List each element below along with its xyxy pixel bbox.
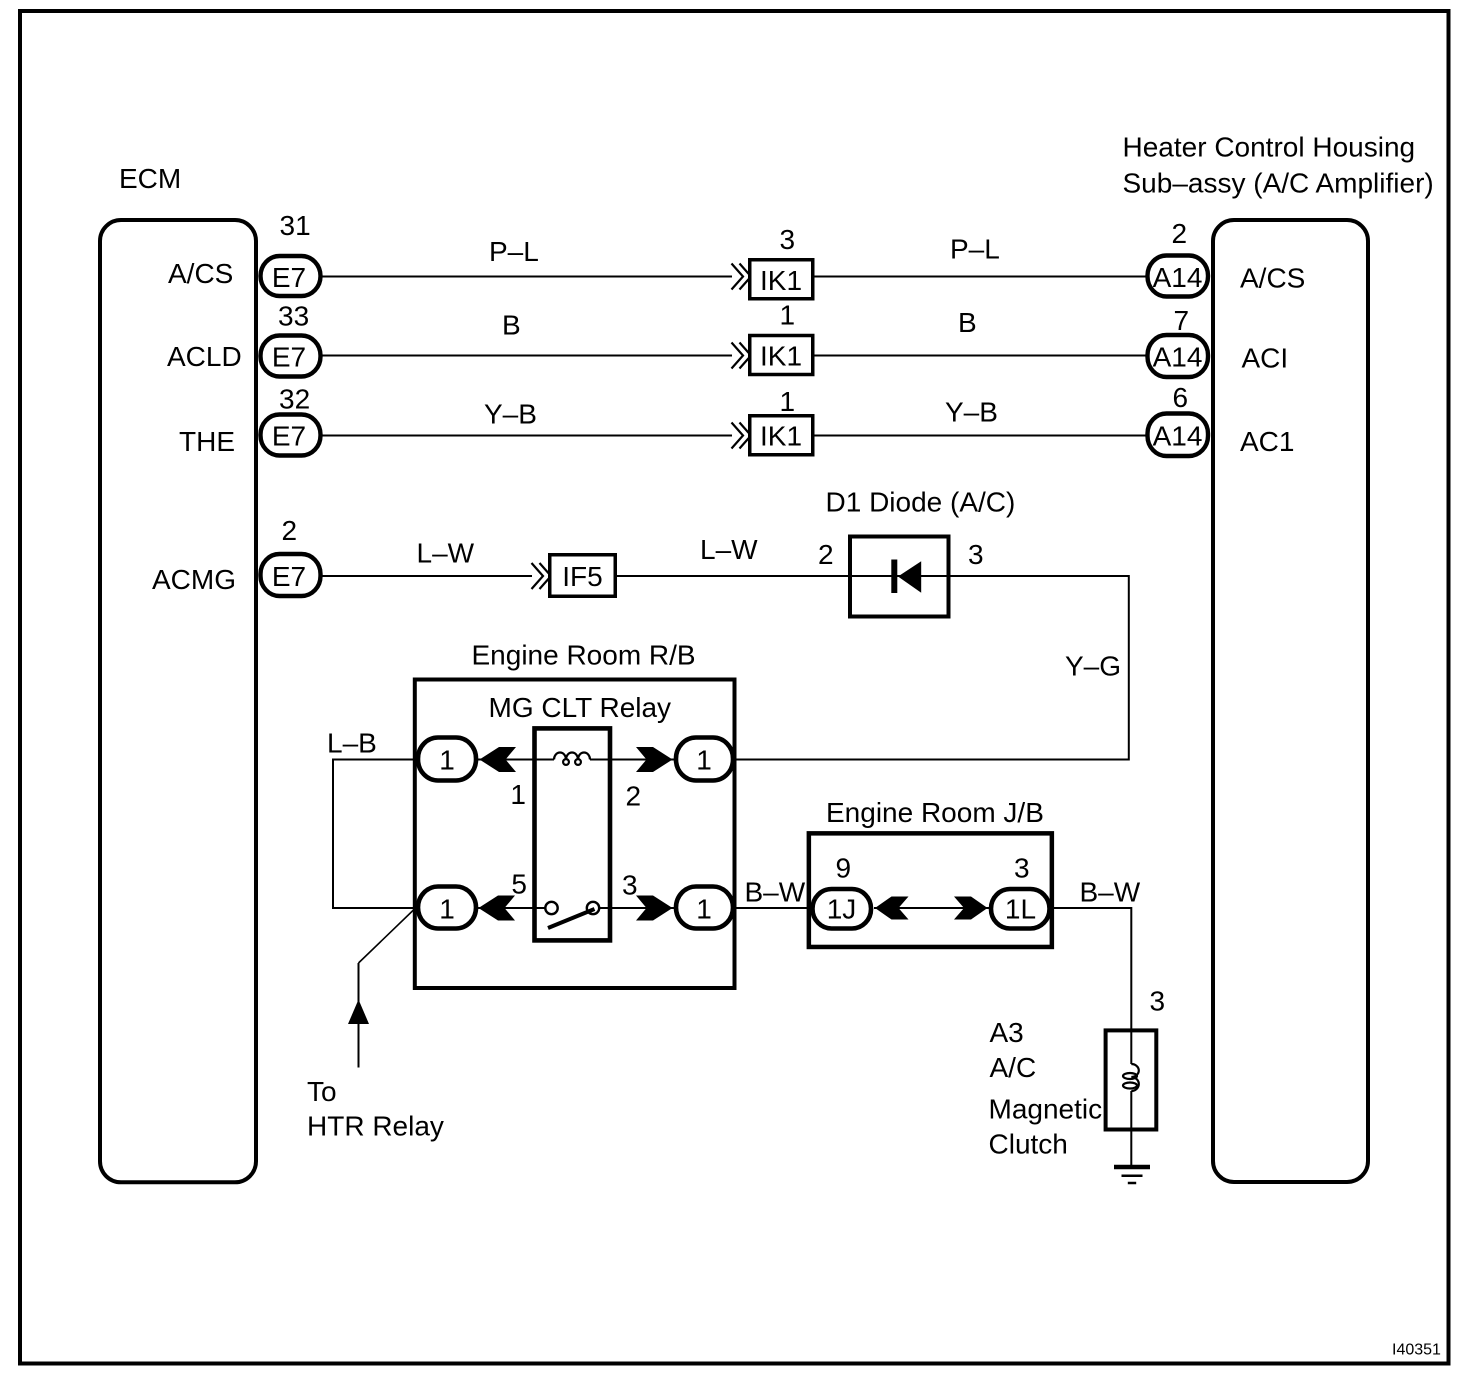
connector E7 pin 31 bbox=[261, 210, 321, 296]
wire B-W from 1L to clutch bbox=[1050, 877, 1166, 1065]
svg-text:3: 3 bbox=[1014, 853, 1030, 884]
svg-text:IK1: IK1 bbox=[760, 421, 802, 452]
relay switch wire bottom row bbox=[478, 907, 546, 909]
connector A14 pin 7 bbox=[1148, 305, 1209, 377]
svg-text:A/CS: A/CS bbox=[168, 258, 233, 289]
svg-text:Magnetic: Magnetic bbox=[989, 1094, 1103, 1125]
svg-text:1: 1 bbox=[510, 779, 526, 810]
svg-text:B: B bbox=[958, 307, 977, 338]
splice chevrons row 1 bbox=[732, 264, 752, 290]
wire to ground bbox=[1130, 1091, 1132, 1166]
relay switch contacts bbox=[545, 902, 599, 914]
svg-text:ECM: ECM bbox=[119, 163, 181, 194]
wire A/CS row bbox=[323, 234, 1147, 277]
svg-text:B: B bbox=[502, 310, 521, 341]
svg-text:Clutch: Clutch bbox=[989, 1129, 1068, 1160]
svg-text:MG CLT Relay: MG CLT Relay bbox=[489, 692, 672, 723]
Engine Room R/B block bbox=[415, 640, 735, 989]
svg-text:Engine Room R/B: Engine Room R/B bbox=[472, 640, 696, 671]
connector IK1 pin 3 bbox=[750, 224, 813, 299]
relay coil wire top row bbox=[478, 759, 554, 761]
svg-text:32: 32 bbox=[279, 384, 310, 415]
splice chevrons row 3 bbox=[732, 423, 752, 449]
svg-text:5: 5 bbox=[511, 869, 527, 900]
svg-text:A14: A14 bbox=[1153, 421, 1203, 452]
relay coil bbox=[554, 753, 590, 765]
svg-text:A14: A14 bbox=[1153, 342, 1203, 373]
relay MG CLT inner box bbox=[535, 728, 611, 940]
arrow left (J/B) bbox=[875, 897, 909, 920]
svg-text:THE: THE bbox=[179, 426, 235, 457]
svg-text:1L: 1L bbox=[1005, 894, 1036, 925]
svg-text:P–L: P–L bbox=[950, 234, 1000, 265]
svg-text:1J: 1J bbox=[827, 894, 857, 925]
svg-text:I40351: I40351 bbox=[1392, 1342, 1441, 1359]
svg-text:9: 9 bbox=[836, 853, 852, 884]
svg-text:1: 1 bbox=[439, 745, 455, 776]
svg-text:P–L: P–L bbox=[489, 236, 539, 267]
wire to HTR relay bbox=[307, 910, 444, 1142]
svg-text:To: To bbox=[307, 1076, 337, 1107]
svg-text:3: 3 bbox=[968, 539, 984, 570]
arrow right (bottom row) bbox=[636, 896, 673, 921]
terminal 1 (bottom-right) bbox=[676, 887, 733, 929]
Engine Room J/B block bbox=[809, 797, 1052, 947]
diode D1 bbox=[818, 487, 1015, 617]
svg-text:33: 33 bbox=[278, 301, 309, 332]
svg-text:Y–G: Y–G bbox=[1065, 651, 1121, 682]
svg-text:3: 3 bbox=[780, 224, 796, 255]
connector IK1 pin 1 bbox=[750, 300, 813, 375]
svg-text:Y–B: Y–B bbox=[945, 397, 998, 428]
wire THE row bbox=[323, 397, 1147, 436]
ground bbox=[1114, 1167, 1150, 1183]
splice chevrons row 2 bbox=[732, 343, 752, 369]
svg-text:1: 1 bbox=[780, 300, 796, 331]
svg-text:2: 2 bbox=[282, 515, 298, 546]
svg-text:A14: A14 bbox=[1153, 262, 1203, 293]
arrow left (top row) bbox=[480, 747, 517, 772]
wire ACLD row bbox=[323, 307, 1147, 356]
svg-text:ACI: ACI bbox=[1242, 343, 1289, 374]
svg-text:B–W: B–W bbox=[1080, 877, 1141, 908]
svg-text:2: 2 bbox=[626, 781, 642, 812]
svg-text:31: 31 bbox=[280, 210, 311, 241]
splice chevrons row 4 bbox=[532, 563, 552, 589]
svg-text:L–W: L–W bbox=[417, 538, 475, 569]
terminal 1 (bottom-left) bbox=[418, 887, 476, 929]
connector A14 pin 6 bbox=[1148, 382, 1209, 456]
connector E7 pin 32 bbox=[261, 384, 321, 456]
svg-text:1: 1 bbox=[696, 894, 712, 925]
A/C magnetic clutch A3 bbox=[989, 1017, 1157, 1160]
connector IF5 bbox=[550, 555, 616, 597]
svg-text:E7: E7 bbox=[272, 561, 306, 592]
wire Y-G from diode to relay coil bbox=[735, 576, 1129, 760]
svg-text:3: 3 bbox=[622, 870, 638, 901]
J/B inner wire bbox=[874, 907, 989, 909]
ECM block bbox=[100, 163, 256, 1182]
svg-text:ACLD: ACLD bbox=[167, 341, 242, 372]
arrow right (top row) bbox=[636, 747, 673, 772]
svg-text:E7: E7 bbox=[272, 342, 306, 373]
svg-text:1: 1 bbox=[696, 745, 712, 776]
svg-text:Heater Control Housing: Heater Control Housing bbox=[1123, 132, 1416, 163]
svg-text:Engine Room J/B: Engine Room J/B bbox=[826, 797, 1044, 828]
svg-text:IK1: IK1 bbox=[760, 341, 802, 372]
terminal 1 (top-right) bbox=[676, 738, 733, 781]
svg-text:AC1: AC1 bbox=[1240, 426, 1294, 457]
connector E7 pin 2 bbox=[261, 515, 321, 596]
svg-text:1: 1 bbox=[780, 386, 796, 417]
wire L-B loop bbox=[327, 728, 416, 909]
heater control housing block U-A14 bbox=[1123, 132, 1434, 1183]
svg-text:ACMG: ACMG bbox=[152, 564, 236, 595]
svg-text:L–B: L–B bbox=[327, 728, 377, 759]
svg-text:HTR Relay: HTR Relay bbox=[307, 1111, 444, 1142]
svg-text:Sub–assy (A/C Amplifier): Sub–assy (A/C Amplifier) bbox=[1123, 168, 1434, 199]
svg-text:6: 6 bbox=[1173, 382, 1189, 413]
connector 1J pin 9 bbox=[813, 853, 872, 929]
svg-text:A/C: A/C bbox=[990, 1052, 1037, 1083]
connector A14 pin 2 bbox=[1148, 218, 1209, 297]
svg-text:IK1: IK1 bbox=[760, 265, 802, 296]
svg-text:B–W: B–W bbox=[745, 877, 806, 908]
connector E7 pin 33 bbox=[261, 301, 321, 377]
terminal 1 (top-left) bbox=[418, 738, 476, 781]
svg-text:A/CS: A/CS bbox=[1240, 263, 1305, 294]
wire B-W relay to J/B bbox=[735, 877, 810, 909]
svg-text:A3: A3 bbox=[990, 1017, 1024, 1048]
svg-text:E7: E7 bbox=[272, 421, 306, 452]
svg-text:3: 3 bbox=[1150, 986, 1166, 1017]
svg-text:2: 2 bbox=[1172, 218, 1188, 249]
connector 1L pin 3 bbox=[991, 853, 1050, 929]
svg-text:1: 1 bbox=[439, 894, 455, 925]
relay switch blade bbox=[548, 909, 595, 928]
wire ACMG row bbox=[323, 534, 850, 576]
arrow right (J/B) bbox=[954, 897, 988, 920]
svg-text:IF5: IF5 bbox=[562, 561, 602, 592]
svg-text:2: 2 bbox=[818, 539, 834, 570]
svg-text:E7: E7 bbox=[272, 262, 306, 293]
connector IK1 pin 1 bbox=[750, 386, 813, 455]
svg-text:L–W: L–W bbox=[700, 534, 758, 565]
arrow left (bottom row) bbox=[479, 896, 516, 921]
svg-text:7: 7 bbox=[1174, 305, 1190, 336]
svg-text:Y–B: Y–B bbox=[484, 399, 537, 430]
clutch coil bbox=[1123, 1064, 1139, 1091]
svg-text:D1 Diode (A/C): D1 Diode (A/C) bbox=[826, 487, 1016, 518]
